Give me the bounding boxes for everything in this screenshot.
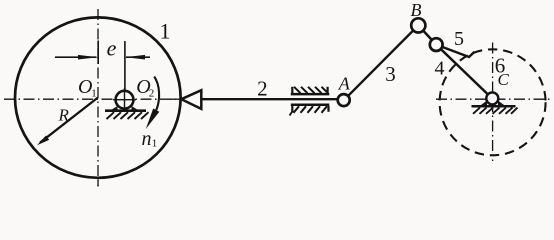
pin joint C: ground line — [472, 105, 516, 108]
guide bottom right end bar — [327, 106, 329, 112]
svg-text:C: C — [498, 70, 510, 89]
pin joint C: left wedge — [481, 101, 488, 106]
pointed follower tip (triangle) — [181, 90, 201, 109]
svg-text:O: O — [78, 76, 92, 98]
guide bottom left tail — [290, 111, 294, 116]
horizontal centerline through C — [436, 98, 552, 100]
ratchet wheel 6 (dashed circle) — [440, 49, 546, 155]
svg-text:2: 2 — [149, 88, 155, 100]
pawl 5 — [436, 45, 474, 57]
svg-text:5: 5 — [454, 28, 464, 50]
dimension e: left arrow — [55, 55, 98, 60]
link 3 (A to B) — [344, 25, 418, 99]
pin joint O2: right wedge — [132, 106, 139, 110]
vertical extension line through O2 — [124, 41, 126, 110]
svg-text:e: e — [107, 35, 117, 60]
svg-text:4: 4 — [435, 58, 445, 80]
svg-text:A: A — [338, 74, 351, 94]
R arrowhead — [37, 136, 49, 146]
guide bottom left end bar — [291, 106, 293, 113]
guide top left end bar — [291, 87, 293, 93]
horizontal centerline through O1 and O2 — [4, 98, 182, 100]
pin joint C circle — [486, 92, 498, 104]
dimension e: right arrow — [125, 55, 150, 60]
pin joint C: right wedge — [498, 101, 505, 106]
svg-text:R: R — [58, 106, 70, 125]
pin joint O2 circle — [116, 91, 134, 109]
svg-text:2: 2 — [257, 77, 268, 101]
pin joint O2: ground line — [105, 109, 146, 112]
vertical centerline through C — [492, 43, 494, 162]
pin joint B circle — [411, 18, 425, 32]
svg-text:1: 1 — [91, 88, 97, 100]
follower rod 2 — [201, 98, 340, 100]
pin joint C: hatching — [473, 108, 518, 114]
pin joint O2: left wedge — [111, 106, 118, 110]
pawl pivot circle (joint 4-5) — [430, 38, 443, 51]
eccentric wheel 1 (big circle) — [15, 17, 181, 177]
link 4 (B through pawl pivot to C) — [418, 25, 492, 98]
vertical centerline through O1 — [97, 9, 99, 186]
svg-text:1: 1 — [152, 138, 158, 150]
svg-text:n: n — [142, 128, 152, 150]
guide bottom hatching — [294, 106, 328, 113]
pin joint A circle — [338, 94, 350, 106]
svg-text:1: 1 — [160, 19, 171, 44]
rotation arrow n1 — [154, 77, 159, 111]
guide top rail — [291, 93, 330, 96]
guide top right end bar — [327, 87, 329, 93]
pin joint O2: hatching — [107, 112, 149, 119]
crosshair in pin O2 — [113, 88, 136, 111]
radius R leader line — [40, 98, 98, 143]
guide top hatching — [294, 87, 328, 93]
svg-text:3: 3 — [385, 62, 396, 86]
svg-text:B: B — [411, 0, 422, 20]
guide bottom rail — [291, 103, 330, 106]
dimension extension line at O1 — [97, 41, 99, 65]
